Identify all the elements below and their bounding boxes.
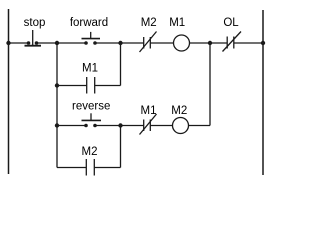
contact OL (NC) right plate bbox=[233, 37, 235, 49]
svg-text:M1: M1 bbox=[169, 17, 185, 29]
wire rung2 contact M1 to coil M2 bbox=[150, 125, 172, 127]
wire rung2 reverse to node D bbox=[95, 125, 121, 127]
coil M1 bbox=[174, 35, 190, 51]
wire rung2 node D to contact M1 bbox=[121, 125, 144, 127]
pushbutton forward (NO) actuator bar bbox=[82, 38, 101, 40]
pushbutton stop (NC) stem bbox=[32, 30, 34, 46]
wire rung1 left rail to stop bbox=[9, 42, 29, 44]
junction node A at M1 branch bbox=[55, 83, 59, 87]
coil M2 bbox=[173, 118, 189, 134]
svg-text:M1: M1 bbox=[141, 105, 157, 117]
junction node D at rung2 bbox=[118, 123, 122, 127]
wire rung1 stop to node A bbox=[37, 42, 58, 44]
pushbutton forward (NO) stem bbox=[90, 32, 92, 39]
left power rail bbox=[8, 9, 10, 174]
wire rung2 node A to reverse bbox=[57, 125, 86, 127]
reverse contact dot right bbox=[93, 124, 97, 128]
contact M1 (NO seal-in) right plate bbox=[94, 77, 96, 94]
svg-text:OL: OL bbox=[223, 17, 239, 29]
svg-text:M2: M2 bbox=[171, 105, 187, 117]
junction node C bbox=[208, 41, 212, 45]
wire vertical node A down to rung2 bbox=[56, 43, 58, 126]
svg-text:M2: M2 bbox=[82, 146, 98, 158]
stop contact dot right bbox=[35, 41, 39, 45]
svg-text:M2: M2 bbox=[141, 17, 157, 29]
reverse contact dot left bbox=[84, 124, 88, 128]
svg-text:forward: forward bbox=[70, 17, 108, 29]
contact M1 (NC) rung2 slash bbox=[140, 114, 157, 135]
svg-text:stop: stop bbox=[24, 17, 46, 29]
contact M2 (NO seal-in) left plate bbox=[85, 159, 87, 176]
svg-text:M1: M1 bbox=[82, 63, 98, 75]
wire M2 branch right bbox=[94, 167, 120, 169]
wire vertical node D down to M2 branch bbox=[120, 126, 122, 168]
wire rung1 node B to contact M2 bbox=[121, 42, 144, 44]
junction node A bbox=[55, 41, 59, 45]
wire M1 branch right bbox=[95, 85, 121, 87]
contact M1 (NO seal-in) left plate bbox=[86, 77, 88, 94]
contact M2 (NC) rung1 right plate bbox=[149, 37, 151, 49]
wire M1 branch left bbox=[57, 85, 87, 87]
contact M2 (NC) rung1 slash bbox=[140, 32, 157, 53]
forward contact dot left bbox=[84, 41, 88, 45]
pushbutton stop (NC) actuator bar bbox=[25, 45, 42, 47]
wire rung1 coil M1 to node C bbox=[190, 42, 211, 44]
wire rung1 contact OL to right rail bbox=[234, 42, 263, 44]
junction node A at rung2 bbox=[55, 123, 59, 127]
pushbutton reverse (NO) stem bbox=[90, 113, 92, 120]
pushbutton reverse (NO) actuator bar bbox=[82, 119, 102, 121]
contact OL (NC) left plate bbox=[226, 37, 228, 49]
svg-text:reverse: reverse bbox=[72, 101, 110, 113]
wire M2 branch left bbox=[57, 167, 86, 169]
junction node right rail rung1 bbox=[261, 41, 265, 45]
contact M2 (NO seal-in) right plate bbox=[93, 159, 95, 176]
contact OL (NC) slash bbox=[223, 32, 242, 52]
junction node B bbox=[118, 41, 122, 45]
wire vertical node B down to M1 branch bbox=[120, 43, 122, 86]
wire rung1 contact M2 to coil M1 bbox=[150, 42, 173, 44]
contact M1 (NC) rung2 left plate bbox=[143, 120, 145, 132]
stop contact dot left bbox=[27, 41, 31, 45]
wire rung1 node A to forward bbox=[57, 42, 86, 44]
junction node left rail rung1 bbox=[6, 41, 10, 45]
contact M2 (NC) rung1 left plate bbox=[143, 37, 145, 49]
wire rung2 coil M2 to corner bbox=[189, 125, 211, 127]
wire rung1 node C to contact OL bbox=[210, 42, 227, 44]
contact M1 (NC) rung2 right plate bbox=[149, 120, 151, 132]
wire vertical corner up to node C bbox=[209, 43, 211, 126]
wire rung1 forward to node B bbox=[95, 42, 121, 44]
right power rail bbox=[262, 10, 264, 175]
wire vertical node A down to M2 branch bbox=[56, 126, 58, 168]
forward contact dot right bbox=[93, 41, 97, 45]
